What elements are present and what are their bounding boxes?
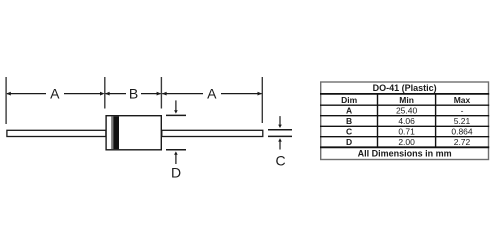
svg-text:-: -: [461, 105, 464, 115]
svg-text:Max: Max: [454, 95, 471, 105]
wire: D dimension upper arrow (down): [174, 100, 178, 113]
svg-text:Dim: Dim: [341, 95, 358, 105]
wire: D dimension upper extension line: [166, 114, 186, 116]
wire: dimension extension line at body left: [104, 77, 106, 109]
svg-text:B: B: [129, 85, 138, 101]
wire: left lead of diode: [7, 130, 106, 136]
table: horizontal rule below row C: [320, 136, 489, 138]
wire: dimension line segment A left: [6, 92, 104, 96]
diode D1 cathode band: [113, 116, 119, 149]
svg-text:DO-41 (Plastic): DO-41 (Plastic): [373, 83, 437, 93]
table: vertical rule between Min and Max columns: [435, 94, 437, 147]
svg-text:All Dimensions in mm: All Dimensions in mm: [358, 149, 452, 159]
wire: C dimension upper arrow (down): [278, 116, 282, 128]
wire: C dimension upper line: [268, 129, 292, 131]
svg-text:2.00: 2.00: [398, 137, 415, 147]
table: vertical rule between Dim and Min columns: [377, 94, 379, 147]
svg-text:4.06: 4.06: [398, 116, 415, 126]
wire: C dimension lower line: [268, 135, 292, 137]
svg-text:0.71: 0.71: [398, 126, 415, 136]
wire: dimension extension line right end of right lead: [261, 77, 263, 123]
table: horizontal rule below title: [320, 93, 489, 95]
svg-text:A: A: [207, 85, 217, 101]
svg-text:25.40: 25.40: [396, 105, 418, 115]
wire: right lead of diode: [162, 130, 263, 136]
diode D1 body (DO-41 package): [106, 116, 161, 150]
table: DO-41 dimensions table outer border: [321, 82, 489, 160]
wire: dimension line segment A right: [162, 92, 262, 96]
table: horizontal rule below row D: [320, 146, 489, 148]
svg-text:5.21: 5.21: [454, 116, 471, 126]
svg-text:A: A: [346, 105, 352, 115]
wire: D dimension lower extension line: [166, 149, 186, 151]
wire: dimension extension line at body right: [160, 77, 162, 109]
table: horizontal rule below row A: [320, 115, 489, 117]
svg-text:A: A: [50, 85, 60, 101]
svg-text:C: C: [275, 153, 285, 169]
diode D1 cathode band (thin stripe): [111, 116, 113, 149]
wire: dimension extension line left end of left lead: [5, 77, 7, 124]
svg-text:2.72: 2.72: [454, 137, 471, 147]
svg-text:B: B: [346, 116, 352, 126]
svg-text:D: D: [171, 165, 181, 181]
svg-text:Min: Min: [399, 95, 414, 105]
table: horizontal rule below row B: [320, 125, 489, 127]
wire: dimension line segment B: [105, 92, 161, 96]
svg-text:0.864: 0.864: [451, 126, 473, 136]
svg-text:C: C: [346, 126, 352, 136]
wire: D dimension lower arrow (up): [174, 151, 178, 164]
wire: C dimension lower arrow (up): [278, 138, 282, 149]
table: horizontal rule below header row: [320, 104, 489, 106]
svg-text:D: D: [346, 137, 352, 147]
